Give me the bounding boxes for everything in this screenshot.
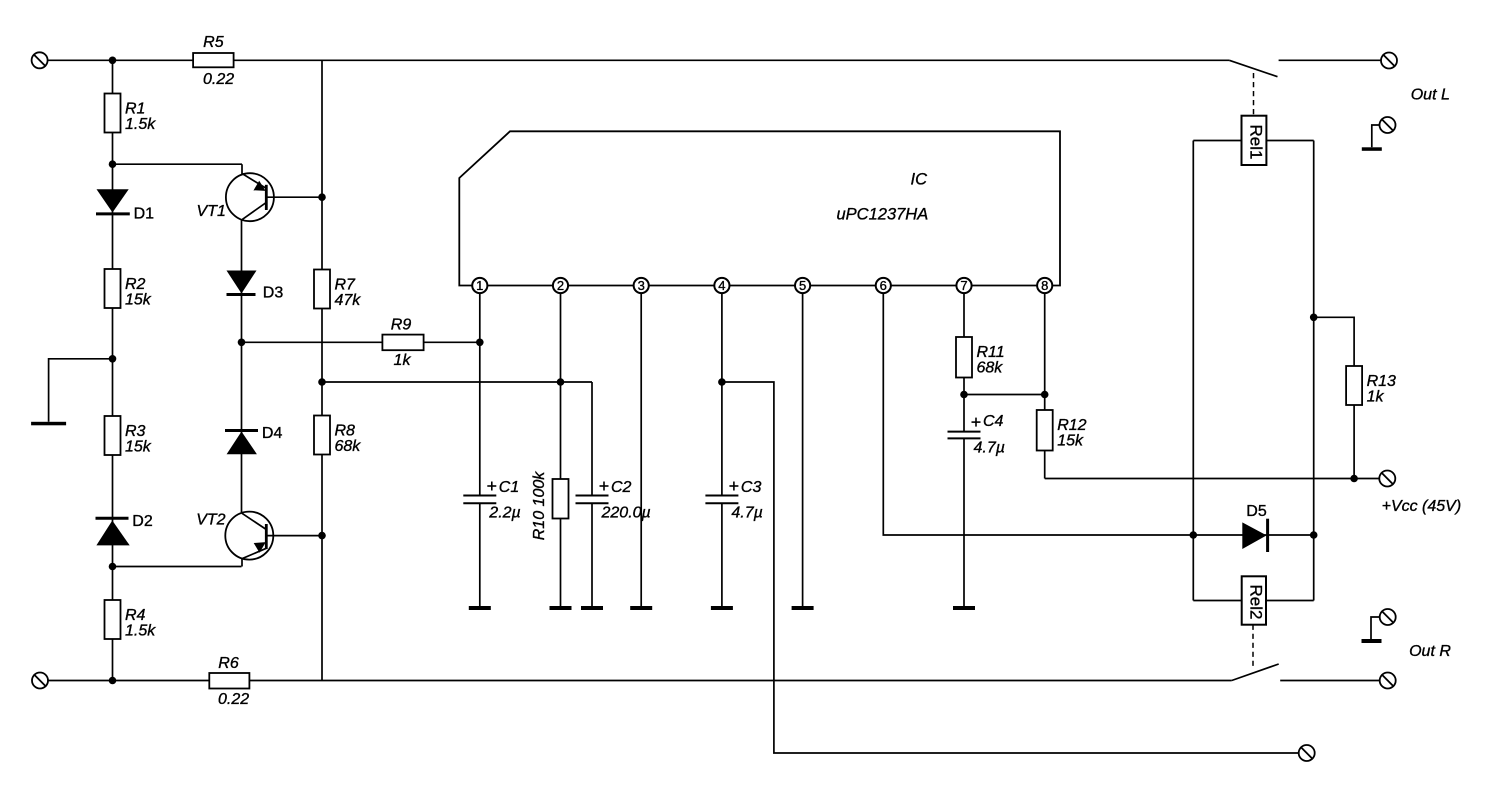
resistor R9 (382, 335, 423, 351)
svg-text:15k: 15k (125, 292, 152, 309)
svg-text:6: 6 (880, 278, 887, 293)
diode D1 (97, 189, 129, 212)
node bottom-left (109, 677, 117, 685)
ground C2 (581, 606, 603, 610)
svg-text:Out L: Out L (1411, 87, 1450, 104)
svg-text:IC: IC (911, 171, 928, 189)
wire pin 3 column (640, 293, 642, 607)
node R2-R3 ground tap (109, 355, 117, 363)
node R11-C4 (960, 391, 968, 399)
svg-text:C3: C3 (741, 479, 762, 496)
svg-text:R12: R12 (1057, 417, 1086, 434)
svg-text:5: 5 (799, 278, 806, 293)
svg-text:3: 3 (638, 278, 645, 293)
terminal Out R (1380, 673, 1396, 689)
wire pin 7 column (963, 293, 965, 607)
wire VT2 base (266, 535, 322, 537)
capacitor C2 (576, 495, 609, 497)
ground pin3 (630, 606, 652, 610)
wire Rel1 right (1266, 140, 1313, 142)
svg-text:220.0µ: 220.0µ (601, 505, 651, 522)
node D5 cathode (1310, 531, 1318, 539)
svg-text:C4: C4 (983, 413, 1004, 430)
svg-text:C2: C2 (611, 479, 632, 496)
dashed link Rel2 (1252, 625, 1254, 666)
wire Rel2 left (1193, 600, 1241, 602)
wire R13 branch (1314, 317, 1354, 478)
wire C2 branch (591, 382, 593, 607)
IC U1 uPC1237HA body (459, 131, 1060, 285)
resistor R10 (553, 479, 569, 519)
capacitor C1 (463, 495, 496, 497)
svg-text:C1: C1 (499, 479, 519, 496)
wire top rail (48, 59, 1230, 61)
pin 4 (714, 278, 729, 293)
svg-text:D3: D3 (263, 285, 284, 302)
wire R8 to pin 2 (322, 381, 592, 383)
svg-text:R1: R1 (125, 101, 145, 118)
resistor R8 (314, 416, 330, 455)
wire relay left rail (1192, 141, 1194, 601)
relay Rel1 (1242, 116, 1267, 165)
svg-text:R5: R5 (203, 34, 224, 51)
svg-text:+Vcc (45V): +Vcc (45V) (1382, 498, 1462, 515)
switch blade Out L (1229, 60, 1277, 76)
svg-text:R2: R2 (125, 276, 146, 293)
pin 6 (876, 278, 891, 293)
wire left column (112, 60, 114, 680)
svg-text:4.7µ: 4.7µ (731, 505, 762, 522)
pin 2 (553, 278, 568, 293)
capacitor C4 (948, 431, 981, 433)
terminal Out R ground (1380, 609, 1396, 625)
wire pin 4 to bottom terminal (722, 382, 1299, 753)
wire pin 4 column (721, 293, 723, 607)
wire VT1 base (266, 196, 322, 198)
svg-text:R8: R8 (335, 423, 356, 440)
terminal input L (32, 52, 48, 68)
wire Rel1 left (1193, 140, 1241, 142)
svg-text:0.22: 0.22 (218, 691, 249, 708)
svg-text:1.5k: 1.5k (125, 116, 156, 133)
wire Vcc row (1045, 478, 1380, 480)
wire Out L fixed contact (1279, 59, 1381, 61)
node R13 tap (1310, 314, 1318, 322)
pin 3 (634, 278, 649, 293)
capacitor C3 (705, 495, 738, 497)
svg-text:VT2: VT2 (196, 512, 225, 529)
wire relay right rail (1313, 141, 1315, 601)
ground R10 (550, 606, 572, 610)
wire R9 row (242, 341, 480, 343)
resistor R6 (209, 673, 249, 689)
svg-text:D2: D2 (132, 513, 153, 530)
wire bottom rail (48, 680, 1232, 682)
switch blade Out R (1232, 664, 1279, 681)
svg-text:1: 1 (476, 278, 483, 293)
wire pin 8 R12 column (1044, 293, 1046, 479)
dashed link Rel1 (1253, 73, 1255, 116)
svg-text:8: 8 (1041, 278, 1048, 293)
pin 8 (1037, 278, 1052, 293)
svg-text:R10 100k: R10 100k (531, 471, 548, 540)
svg-text:R11: R11 (977, 344, 1005, 361)
svg-text:D4: D4 (262, 425, 283, 442)
terminal bottom (1299, 745, 1315, 761)
terminal Out L (1381, 53, 1397, 69)
node pin2 wire (557, 378, 565, 386)
pin 5 (795, 278, 810, 293)
svg-text:47k: 47k (335, 292, 362, 309)
svg-text:uPC1237HA: uPC1237HA (837, 206, 929, 224)
node R1-D1 (109, 160, 117, 168)
node R8 top wire (318, 378, 326, 386)
wire VT2 emitter row (113, 566, 242, 568)
node D5 anode (1190, 531, 1198, 539)
wire pin 5 column (802, 293, 804, 607)
node top-left (109, 57, 117, 65)
node VT1 base R7 (318, 193, 326, 201)
svg-text:Rel2: Rel2 (1247, 585, 1266, 620)
svg-text:15k: 15k (1057, 433, 1084, 450)
wire Out R fixed contact (1280, 680, 1380, 682)
diode D3 (227, 271, 257, 294)
transistor VT1 (226, 173, 274, 221)
ground C4 (953, 606, 975, 610)
svg-text:4: 4 (718, 278, 725, 293)
svg-text:R6: R6 (218, 655, 239, 672)
transistor VT2 (225, 512, 273, 560)
svg-text:1k: 1k (394, 352, 412, 369)
svg-text:R4: R4 (125, 607, 146, 624)
resistor R13 (1346, 366, 1362, 405)
svg-text:2.2µ: 2.2µ (488, 505, 520, 522)
wire R11 bottom row (964, 394, 1045, 396)
svg-text:0.22: 0.22 (203, 71, 234, 88)
relay Rel2 (1242, 576, 1266, 624)
wire pin 1 column (479, 293, 481, 607)
svg-text:2: 2 (557, 278, 564, 293)
svg-text:15k: 15k (125, 439, 152, 456)
resistor R3 (105, 416, 121, 455)
pin 1 (472, 278, 487, 293)
svg-text:1k: 1k (1367, 389, 1385, 406)
wire VT1 emitter to node (113, 163, 243, 165)
wire to ground (49, 359, 113, 422)
node pin8 R12 (1041, 391, 1049, 399)
node VT2 base R8 (318, 532, 326, 540)
svg-text:Rel1: Rel1 (1247, 125, 1266, 160)
pin 7 (956, 278, 971, 293)
svg-text:D5: D5 (1246, 503, 1267, 520)
resistor R2 (105, 269, 121, 308)
svg-text:7: 7 (960, 278, 967, 293)
svg-text:D1: D1 (134, 206, 155, 223)
node D2-R4 (109, 563, 117, 571)
svg-text:R9: R9 (391, 317, 412, 334)
node D3-D4 junction (238, 339, 246, 347)
ground pin5 (792, 606, 814, 610)
diode D4 (225, 429, 258, 432)
svg-text:Out R: Out R (1409, 643, 1451, 660)
svg-text:68k: 68k (335, 438, 362, 455)
ground left (31, 422, 66, 426)
ground C1 (469, 606, 491, 610)
wire Rel2 right (1266, 600, 1314, 602)
svg-text:R3: R3 (125, 423, 146, 440)
resistor R7 (314, 270, 330, 309)
svg-text:R7: R7 (335, 277, 357, 294)
terminal Out L ground (1380, 117, 1396, 133)
node R13 Vcc (1350, 475, 1358, 483)
diode D2 (96, 517, 129, 520)
resistor R11 (956, 337, 972, 378)
svg-text:68k: 68k (977, 360, 1004, 377)
resistor R1 (105, 94, 121, 133)
terminal input R (32, 673, 48, 689)
wire R7 R8 column (321, 60, 323, 680)
svg-text:1.5k: 1.5k (125, 623, 156, 640)
resistor R5 (193, 53, 234, 67)
wire collector column D3 D4 (241, 220, 243, 513)
resistor R4 (105, 600, 121, 639)
svg-text:R13: R13 (1367, 373, 1396, 390)
ground C3 (711, 606, 733, 610)
terminal Vcc (1379, 471, 1395, 487)
node pin4 wire (718, 378, 726, 386)
node R9 pin1 (476, 339, 484, 347)
wire pin 2 column (560, 293, 562, 607)
svg-text:4.7µ: 4.7µ (974, 440, 1005, 457)
svg-text:VT1: VT1 (197, 203, 226, 220)
wire pin 6 to D5 row (883, 293, 1313, 535)
diode D5 (1242, 522, 1266, 549)
resistor R12 (1037, 410, 1053, 451)
